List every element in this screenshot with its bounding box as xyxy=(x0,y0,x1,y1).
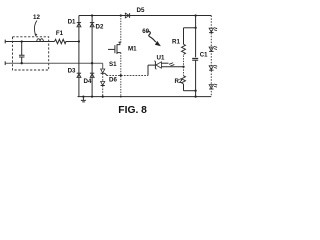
svg-text:D6: D6 xyxy=(109,77,117,84)
node dot U1 / divider xyxy=(182,66,184,68)
LED 2 xyxy=(209,46,218,51)
svg-text:D5: D5 xyxy=(137,7,145,14)
svg-text:R1: R1 xyxy=(172,39,180,46)
leader arrow 60 xyxy=(147,31,156,42)
diode D6 xyxy=(101,74,105,97)
svg-text:D2: D2 xyxy=(96,24,104,31)
node dot rail C1 xyxy=(194,14,196,16)
resistor R2 xyxy=(182,67,196,91)
wire: LED string vertical xyxy=(210,16,212,97)
svg-text:12: 12 xyxy=(33,14,40,21)
node dot R2 bottom xyxy=(194,90,196,92)
diode D5 on rail xyxy=(125,13,129,18)
diode D2 xyxy=(90,23,94,27)
wire: corner up to U1 xyxy=(148,65,155,75)
node dot bottom D4 xyxy=(91,95,93,97)
svg-text:M1: M1 xyxy=(128,45,137,52)
wire: top rail xyxy=(79,15,211,17)
wire: left bridge vertical xyxy=(78,16,80,97)
wire: gate line to U1 xyxy=(107,75,149,77)
node dot rail M1 xyxy=(120,14,122,16)
terminal tick top xyxy=(4,40,6,44)
node dot rail D2 xyxy=(91,14,93,16)
node dot box cap bottom xyxy=(21,62,23,64)
svg-text:S1: S1 xyxy=(109,61,117,68)
ground symbol xyxy=(81,97,86,102)
node dot bottom C1 xyxy=(194,95,196,97)
dashed EMI filter box xyxy=(13,37,49,70)
svg-text:U1: U1 xyxy=(157,55,165,62)
diode D4 xyxy=(90,73,94,77)
resistor R1 xyxy=(182,28,196,67)
fuse F1 zigzag xyxy=(55,39,67,43)
wire: AC line bottom xyxy=(5,62,103,64)
node dot AC bottom / bridge xyxy=(91,62,93,64)
node dot gate wire / M1 source xyxy=(120,74,122,76)
leader arrow for 12 xyxy=(34,21,37,36)
wire: AC line top xyxy=(5,41,79,43)
svg-text:D1: D1 xyxy=(68,19,76,26)
LED 4 xyxy=(209,84,218,89)
capacitor C1 xyxy=(192,16,198,97)
capacitor inside box xyxy=(21,42,23,64)
node dot ground xyxy=(82,95,84,97)
opto U1 xyxy=(154,61,183,69)
node dot AC top / bridge xyxy=(78,40,80,42)
diode D3 xyxy=(77,73,81,77)
svg-text:FIG. 8: FIG. 8 xyxy=(118,105,147,116)
diode D1 xyxy=(77,23,81,27)
svg-text:C1: C1 xyxy=(200,52,208,58)
svg-text:D3: D3 xyxy=(68,68,76,75)
terminal tick bottom xyxy=(4,61,6,65)
wire: right bridge vertical xyxy=(91,16,93,97)
LED 3 xyxy=(209,65,218,70)
svg-text:D4: D4 xyxy=(84,78,92,85)
svg-text:R2: R2 xyxy=(175,78,183,85)
node dot box cap top xyxy=(21,40,23,42)
wire: bottom rail xyxy=(78,96,212,98)
LED 1 xyxy=(209,28,218,33)
inductor choke xyxy=(37,39,44,42)
node dot bottom M1 xyxy=(120,96,122,98)
node dot R1 top xyxy=(194,27,196,29)
node dot bottom D6 xyxy=(102,95,104,97)
transistor M1 MOSFET xyxy=(108,16,121,97)
svg-text:F1: F1 xyxy=(56,30,64,37)
thyristor S1 xyxy=(101,63,108,75)
